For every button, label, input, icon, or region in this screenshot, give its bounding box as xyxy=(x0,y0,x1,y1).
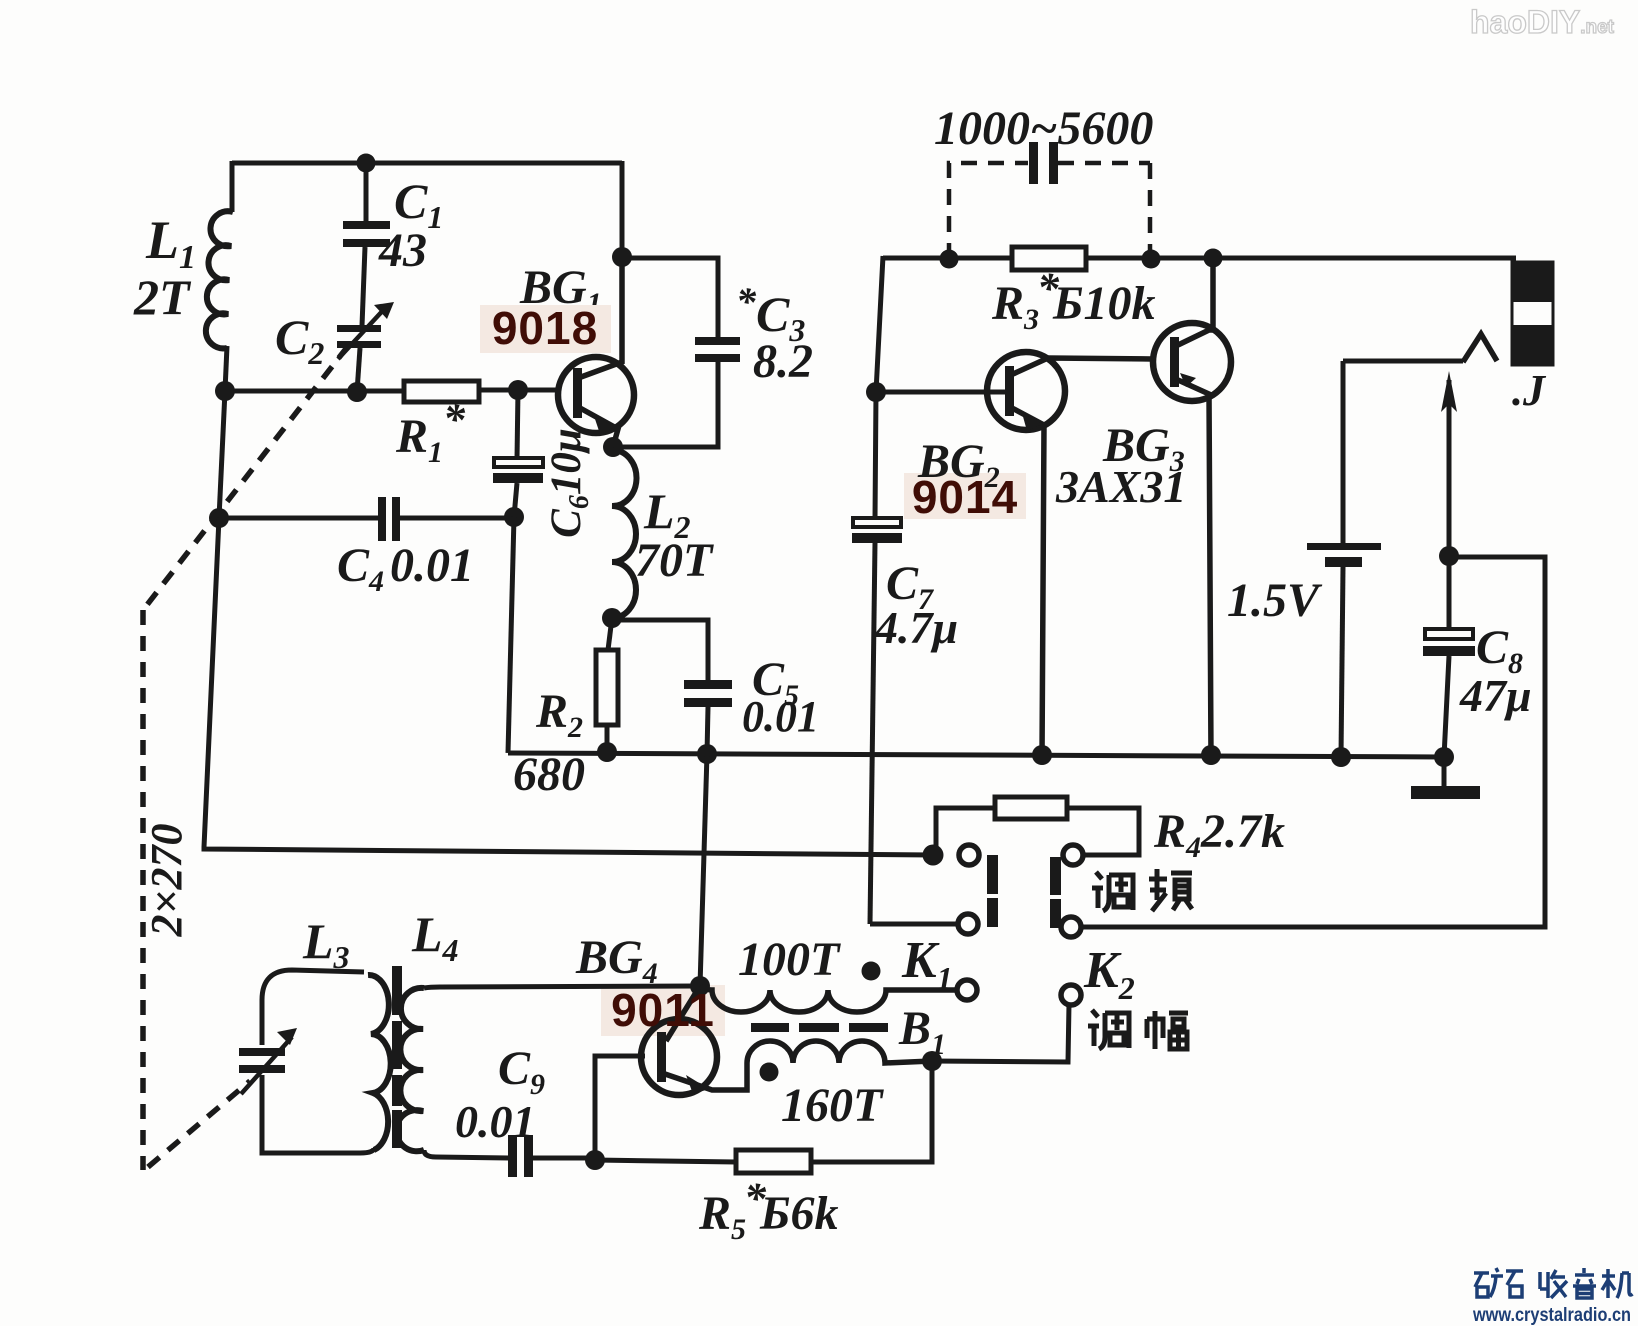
capacitor C1 xyxy=(343,221,390,247)
inductor L4 xyxy=(396,986,697,1158)
core B1 dashed xyxy=(751,1023,888,1032)
svg-text:L3: L3 xyxy=(302,913,350,975)
node BG2 emitter on ground rail xyxy=(1032,745,1052,765)
node BG1 collector junction xyxy=(612,247,632,267)
resistor R4 xyxy=(995,797,1067,819)
svg-text:.J: .J xyxy=(1512,366,1547,415)
battery 1.5V xyxy=(1307,543,1381,567)
inductor L2 xyxy=(612,450,637,618)
svg-text:9014: 9014 xyxy=(912,471,1018,523)
node C8 on ground rail xyxy=(1434,747,1454,767)
svg-text:K2: K2 xyxy=(1083,942,1135,1006)
svg-text:R1*: R1* xyxy=(395,395,466,469)
wire C2 bottom lead xyxy=(357,348,360,392)
switch K1 contact xyxy=(957,980,977,1000)
node battery on ground rail xyxy=(1331,747,1351,767)
label pin of tiaopin (FM) xyxy=(1149,869,1192,911)
wire L4 top xyxy=(424,986,697,988)
svg-text:0.01: 0.01 xyxy=(455,1096,536,1147)
svg-text:9011: 9011 xyxy=(611,984,715,1036)
wire R4 bracket right xyxy=(1067,808,1139,855)
wire L3 bottom xyxy=(262,1075,374,1153)
node dashed box right on rail xyxy=(1142,250,1161,269)
wire C5 bottom lead xyxy=(707,707,708,754)
wire top supply rail xyxy=(883,256,1516,261)
switch K bar left xyxy=(987,855,998,927)
svg-text:70T: 70T xyxy=(635,534,714,587)
wire C1 top lead xyxy=(364,163,369,221)
svg-text:680: 680 xyxy=(513,748,585,801)
node R2 on ground rail xyxy=(597,742,617,762)
node BG2 base junction xyxy=(866,382,886,402)
capacitor padder 1000~5600 xyxy=(1029,142,1058,184)
svg-text:C9: C9 xyxy=(498,1042,545,1101)
capacitor C tuning AM variable xyxy=(239,1048,285,1073)
earphone jack J xyxy=(1512,262,1553,365)
resistor R2 xyxy=(596,650,618,725)
node 100T phase dot xyxy=(862,962,881,981)
node C8 top junction xyxy=(1439,546,1459,566)
node C2 bottom junction xyxy=(347,382,367,402)
switch K bar right xyxy=(1050,857,1061,928)
wire C7 bottom rail down to switch xyxy=(870,543,875,924)
node dashed box left on rail xyxy=(940,250,959,269)
wire ground rail xyxy=(508,753,1444,757)
wire K2 to B1 secondary xyxy=(932,1004,1069,1062)
logo shou xyxy=(1540,1270,1567,1298)
svg-text:C40.01: C40.01 xyxy=(337,539,474,598)
node C4/C6 junction xyxy=(504,507,524,527)
wire dashed padder branch xyxy=(949,163,1028,259)
capacitor C3 xyxy=(695,337,740,362)
wire 160T down to R5 row xyxy=(811,1061,932,1162)
wire left rail of amplifier xyxy=(875,256,883,519)
wire battery top row with jack contact xyxy=(1343,359,1463,364)
wire C2 arrow xyxy=(338,305,388,359)
svg-text:4.7μ: 4.7μ xyxy=(874,602,958,653)
switch K2 contact xyxy=(1061,985,1081,1005)
node 160T right junction xyxy=(922,1051,942,1071)
wire top rail of oscillator loop xyxy=(232,161,622,166)
wire C5 top branch xyxy=(612,620,708,683)
svg-text:160T: 160T xyxy=(781,1079,884,1132)
transistor BG4 xyxy=(641,986,747,1095)
wire base row xyxy=(225,390,560,391)
inductor L3 xyxy=(368,975,391,1150)
wire left rail down to ground rail xyxy=(508,517,514,753)
wire right loop to switch xyxy=(1081,557,1545,927)
label plate 9011 xyxy=(601,985,725,1036)
wire battery negative lead xyxy=(1341,567,1343,757)
wire R4 bracket left xyxy=(936,808,995,855)
core B ferrite dashed xyxy=(392,966,402,1148)
svg-text:K1: K1 xyxy=(901,932,953,996)
wire AGC line from tank to switch xyxy=(204,518,933,855)
inductor L3 tank xyxy=(239,970,391,1153)
node junction top (C1 tap) xyxy=(357,154,376,173)
wire phone return with arrow xyxy=(1447,380,1452,556)
transistor BG1 xyxy=(558,257,634,447)
wire collector top drop xyxy=(620,161,625,257)
svg-text:www.crystalradio.cn: www.crystalradio.cn xyxy=(1472,1305,1631,1326)
svg-text:9018: 9018 xyxy=(492,302,598,354)
resistor R5 xyxy=(736,1150,811,1173)
svg-text:100T: 100T xyxy=(738,933,841,986)
node BG1 emitter junction xyxy=(603,437,623,457)
node switch feed junction xyxy=(923,845,944,866)
ground xyxy=(1442,757,1447,786)
svg-text:R2: R2 xyxy=(535,685,583,744)
wire AM cap arrow xyxy=(241,1037,292,1094)
capacitor C4 xyxy=(378,497,400,541)
svg-text:1000~5600: 1000~5600 xyxy=(934,102,1153,155)
wire L1 bottom lead xyxy=(225,346,227,391)
svg-text:2×270: 2×270 xyxy=(142,823,191,937)
node BG3 emitter on ground rail xyxy=(1201,745,1221,765)
label plate 9018 xyxy=(480,305,611,353)
wire L2 to R2 xyxy=(608,618,612,650)
capacitor C7 electrolytic xyxy=(853,518,901,527)
wire ganged tuning dashed lower diagonal xyxy=(148,1081,250,1167)
logo shi xyxy=(1506,1271,1523,1297)
wire lower-left contact to C7 rail xyxy=(870,922,957,927)
wire C3 top branch xyxy=(622,258,718,342)
wire C4 row xyxy=(219,516,514,521)
wire C6 top lead xyxy=(517,390,518,459)
svg-text:C610μ: C610μ xyxy=(543,428,595,538)
logo ji xyxy=(1602,1269,1633,1298)
node BG4 collector junction xyxy=(690,976,710,996)
node A (L1/C2/base row left) xyxy=(215,381,235,401)
transistor BG3 xyxy=(1153,258,1231,757)
wire left drop to L1 xyxy=(230,161,235,212)
switch K contact lower-right xyxy=(1061,917,1081,937)
label tiao of tiaofu (AM) xyxy=(1088,1010,1129,1049)
logo yin xyxy=(1573,1268,1596,1298)
switch K contact lower-left xyxy=(958,914,978,934)
capacitor C5 xyxy=(684,680,732,707)
wire C6 bottom lead xyxy=(514,483,517,517)
capacitor C2 variable xyxy=(337,325,381,348)
svg-text:haoDIY.net: haoDIY.net xyxy=(1470,4,1615,40)
svg-text:R42.7k: R42.7k xyxy=(1153,805,1285,864)
node BG4 base / C9 / R5 junction xyxy=(585,1150,605,1170)
logo kuang xyxy=(1474,1268,1503,1297)
transistor BG2 xyxy=(876,352,1152,757)
node tank bottom / C4 left junction xyxy=(209,508,229,528)
wire BG4 base lead xyxy=(595,1056,645,1160)
svg-text:8.2: 8.2 xyxy=(753,335,813,388)
svg-text:43: 43 xyxy=(378,224,427,277)
wire C1-C2 link xyxy=(362,247,365,326)
svg-text:0.01: 0.01 xyxy=(742,692,819,741)
wire C8 leads xyxy=(1444,556,1449,757)
wire node A down to C4 row xyxy=(219,391,225,518)
svg-text:B1: B1 xyxy=(898,1002,946,1061)
wire R2 bottom lead xyxy=(605,725,610,753)
wire C5 node down to BG4 collector node xyxy=(700,754,707,986)
resistor R1 xyxy=(404,381,479,402)
node C5 on ground rail xyxy=(697,744,717,764)
svg-text:R5*Б6k: R5*Б6k xyxy=(698,1174,839,1246)
svg-text:R3*Б10k: R3*Б10k xyxy=(991,264,1156,336)
inductor B1 primary 100T xyxy=(700,986,958,1012)
svg-text:1.5V: 1.5V xyxy=(1227,574,1323,627)
node base of BG1 / R1 right xyxy=(508,380,528,400)
wire R5 left lead xyxy=(595,1160,736,1162)
capacitor C6 electrolytic xyxy=(494,458,543,467)
node BG3 collector on rail xyxy=(1204,249,1223,268)
wire jack spring contact xyxy=(1463,334,1497,362)
wire C9 right lead xyxy=(533,1156,595,1161)
switch K contact upper-right xyxy=(1063,845,1083,865)
svg-text:2T: 2T xyxy=(133,269,192,325)
wire L4 bottom xyxy=(424,1150,512,1158)
node L2 bottom junction xyxy=(602,608,622,628)
switch K contact upper-left xyxy=(959,845,979,865)
wire battery positive lead xyxy=(1341,361,1346,545)
svg-text:C2: C2 xyxy=(275,309,324,371)
svg-text:L4: L4 xyxy=(411,906,459,968)
svg-text:L1: L1 xyxy=(145,210,196,276)
inductor L1 xyxy=(206,211,233,348)
node 160T phase dot xyxy=(760,1063,779,1082)
inductor B1 secondary 160T xyxy=(747,1041,932,1063)
label plate 9014 xyxy=(904,473,1026,519)
label tiao of tiaopin (FM) xyxy=(1092,872,1133,911)
resistor R3 xyxy=(1012,247,1086,270)
capacitor C8 electrolytic xyxy=(1425,629,1473,639)
svg-text:47μ: 47μ xyxy=(1459,670,1532,721)
wire L3 left top xyxy=(260,1000,265,1045)
label fu of tiaofu (AM) xyxy=(1147,1011,1188,1049)
wire L3 top xyxy=(262,970,364,1000)
wire C3 bottom branch xyxy=(613,362,718,447)
svg-text:3AX31: 3AX31 xyxy=(1055,461,1186,512)
wire ganged tuning dashed vertical xyxy=(140,610,146,1170)
wire ganged tuning dashed link upper diagonal xyxy=(143,346,348,610)
capacitor C9 xyxy=(508,1135,533,1177)
svg-text:BG4: BG4 xyxy=(575,931,658,990)
